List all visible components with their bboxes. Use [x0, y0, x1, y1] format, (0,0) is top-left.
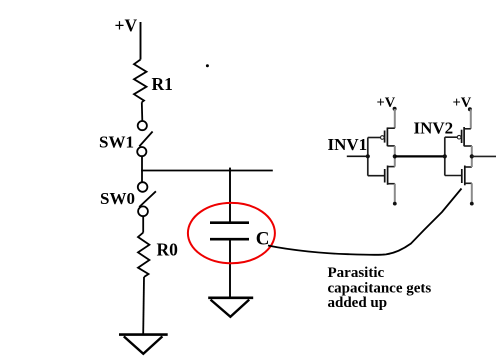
svg-text:SW1: SW1 — [99, 133, 134, 152]
op INV1 PMOS channel — [386, 128, 388, 147]
wire SW0 to R0 — [142, 216, 144, 232]
INV2 NMOS gate lead — [445, 175, 461, 177]
INV2 NMOS source lead — [465, 183, 472, 203]
svg-text:C: C — [256, 228, 270, 249]
ground (left branch) — [119, 335, 168, 354]
INV2 supply dot — [468, 107, 472, 111]
wire R1 to SW1 — [141, 102, 144, 121]
INV2 input junction dot — [443, 154, 447, 158]
svg-text:INV1: INV1 — [328, 135, 368, 154]
INV1 gate wire — [368, 137, 381, 139]
INV1 PMOS gate bar — [384, 131, 386, 143]
pointer curve from C to INV2 — [268, 189, 462, 255]
INV2 NMOS channel — [464, 166, 466, 186]
INV1 ground terminal dot — [393, 202, 397, 206]
wire R0 to ground — [142, 277, 145, 334]
INV2 NMOS gate bar — [461, 169, 463, 183]
INV1 PMOS bubble — [381, 136, 385, 140]
INV1 NMOS channel — [387, 166, 389, 185]
INV1 input wire — [347, 155, 368, 157]
svg-text:R0: R0 — [157, 239, 179, 259]
INV1 supply dot — [393, 107, 397, 111]
svg-text:R1: R1 — [152, 74, 173, 94]
capacitor C top plate — [210, 221, 249, 224]
svg-text:added up: added up — [328, 295, 388, 311]
INV2 PMOS bubble — [457, 135, 461, 139]
switch SW0 top contact — [138, 182, 148, 192]
INV2 PMOS gate bar — [461, 130, 463, 143]
INV2 PMOS drain lead — [464, 146, 472, 156]
switch SW1 blade — [139, 132, 152, 147]
svg-text:+V: +V — [115, 16, 138, 36]
INV2 gate rail — [444, 137, 446, 175]
wire SW1 to SW0 — [141, 156, 143, 182]
red highlight ellipse around C — [188, 203, 275, 263]
wire +V to INV1 PMOS — [387, 109, 395, 128]
switch SW1 bottom contact — [137, 147, 146, 156]
INV1 output junction dot — [393, 154, 397, 158]
svg-text:SW0: SW0 — [100, 189, 135, 208]
INV2 output junction dot — [470, 154, 474, 158]
switch SW1 top contact — [138, 121, 147, 130]
wire from +V down to R1 — [140, 22, 142, 60]
INV2 PMOS channel — [463, 127, 465, 146]
INV1 NMOS drain lead — [388, 156, 395, 166]
INV1 NMOS source lead — [388, 184, 395, 203]
wire capacitor to ground — [229, 239, 231, 297]
INV2 output wire — [472, 155, 496, 157]
resistor R0 — [138, 233, 149, 277]
INV2 NMOS drain lead — [465, 156, 472, 167]
wire +V to INV2 PMOS — [464, 109, 471, 129]
wire INV1 output to INV2 input — [395, 155, 445, 157]
svg-text:INV2: INV2 — [414, 118, 454, 137]
ground (capacitor) — [208, 298, 253, 317]
INV1 input junction dot — [366, 154, 370, 158]
resistor R1 — [134, 60, 147, 103]
switch SW0 blade — [139, 191, 156, 207]
svg-text:Parasitic: Parasitic — [328, 265, 385, 281]
INV1 gate rail — [367, 138, 369, 176]
INV2 ground terminal dot — [470, 202, 474, 206]
INV2 gate wire — [445, 136, 458, 138]
INV1 NMOS gate bar — [384, 169, 386, 183]
node wire to capacitor branch — [141, 170, 273, 172]
INV1 PMOS drain lead — [387, 146, 394, 157]
capacitor C bottom plate — [210, 238, 249, 241]
INV1 NMOS gate lead — [368, 175, 384, 177]
wire node to capacitor — [229, 168, 231, 222]
stray dot mark — [206, 64, 209, 67]
switch SW0 bottom contact — [138, 206, 148, 216]
